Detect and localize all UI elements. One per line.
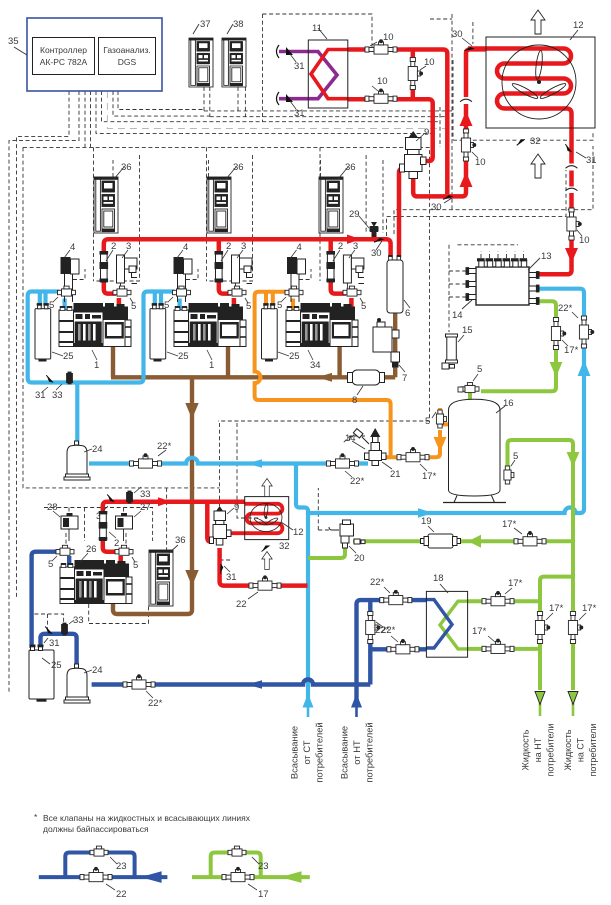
valve 17* after drier — [514, 532, 546, 546]
wire comb below controller 35 — [17, 91, 70, 597]
liquid to receiver arrow down — [550, 362, 563, 377]
svg-text:22*: 22* — [558, 303, 573, 314]
pressure transmitter 29 — [370, 222, 379, 237]
svg-text:32: 32 — [530, 136, 541, 147]
discharge header flow arrow — [347, 235, 361, 244]
wire to VFD 38 — [238, 87, 245, 117]
valve 5 on receiver top — [461, 383, 479, 393]
svg-text:Газоанализ.: Газоанализ. — [103, 45, 150, 55]
svg-text:Всасывание: Всасывание — [339, 726, 350, 779]
svg-text:16: 16 — [503, 398, 514, 409]
svg-text:12: 12 — [293, 527, 304, 538]
liquid level sensor 15 — [442, 334, 458, 369]
svg-text:17*: 17* — [422, 471, 437, 482]
suction valve 5 unit1 — [58, 286, 76, 296]
flag 30 markers — [443, 194, 453, 202]
svg-text:9: 9 — [234, 502, 239, 513]
line into oil rectifier 24 — [75, 383, 79, 447]
svg-text:20: 20 — [354, 553, 365, 564]
svg-text:31: 31 — [294, 108, 305, 119]
svg-text:31: 31 — [586, 155, 597, 166]
gas cooler 12 enclosure — [453, 131, 593, 140]
svg-text:36: 36 — [345, 162, 356, 173]
svg-text:Жидкость: Жидкость — [521, 729, 531, 770]
svg-text:5: 5 — [513, 451, 518, 462]
svg-text:30: 30 — [452, 29, 463, 40]
suction vessel 25 parallel — [29, 645, 54, 701]
svg-text:потребители: потребители — [546, 724, 556, 777]
compressor 26 suction — [32, 552, 57, 648]
svg-text:33: 33 — [140, 489, 151, 500]
svg-text:25: 25 — [63, 351, 74, 362]
tee to bypass valve 9 — [207, 502, 213, 542]
svg-text:10: 10 — [377, 76, 388, 87]
oil from separator 6 — [393, 313, 397, 377]
gas cooler feed arrow up 2 — [460, 111, 473, 126]
svg-text:5: 5 — [133, 560, 138, 571]
svg-text:от НТ: от НТ — [351, 740, 362, 765]
level sensor 15 wiring — [448, 297, 450, 332]
svg-text:на НТ: на НТ — [533, 737, 543, 762]
valve 10 lower — [365, 89, 397, 103]
injection valve 20 with solenoid — [329, 520, 365, 548]
stubs to vessel 25 unit1 — [40, 292, 46, 304]
svg-text:31: 31 — [49, 638, 60, 649]
svg-text:23: 23 — [258, 861, 269, 872]
suction valve 5 parallel — [56, 545, 74, 555]
valve 9 high pressure 3-way — [400, 131, 427, 179]
LT suction from consumers (blue) — [32, 552, 452, 717]
svg-text:24: 24 — [92, 444, 103, 455]
svg-text:Контроллер: Контроллер — [40, 45, 87, 55]
VFD 36 unit2 — [207, 177, 231, 233]
svg-text:4: 4 — [70, 242, 75, 253]
valve 17* on manifold liquid line — [551, 318, 565, 350]
wires to unit drives and valves — [93, 147, 95, 281]
heat reclaim HX 11 — [308, 40, 348, 108]
svg-text:32: 32 — [279, 541, 290, 552]
svg-text:36: 36 — [233, 162, 244, 173]
svg-text:30: 30 — [431, 202, 442, 213]
oil line: brown header — [111, 313, 395, 614]
svg-text:33: 33 — [73, 615, 84, 626]
svg-text:1: 1 — [94, 360, 99, 371]
valve 22* LT suction — [123, 675, 155, 689]
relief valve 3 unit1 — [117, 241, 138, 294]
suction accumulator 25 unit3 — [262, 304, 278, 361]
compressor 1 unit2 — [174, 303, 246, 347]
svg-text:15: 15 — [462, 325, 473, 336]
HX 11 bypass valve 10 leg — [411, 51, 416, 97]
oil rectifier 24 — [64, 441, 90, 480]
svg-text:5: 5 — [425, 416, 430, 427]
svg-text:5: 5 — [246, 301, 251, 312]
discharge header — [104, 239, 391, 293]
svg-text:28: 28 — [47, 502, 58, 513]
manifold 13 control lines — [458, 244, 519, 246]
HX 11 red pass — [311, 50, 348, 99]
svg-text:17*: 17* — [549, 603, 564, 614]
manifold to receiver — [481, 301, 556, 391]
oil filter 8 — [348, 370, 385, 385]
separator 6 to valve 9 — [399, 169, 406, 258]
legend bypass example (suction) — [39, 853, 168, 878]
svg-text:10: 10 — [424, 57, 435, 68]
light grey spare bus wire — [107, 91, 446, 129]
svg-text:38: 38 — [233, 19, 244, 30]
gas cooler / condenser 12 — [486, 20, 595, 128]
control wiring (dashed) — [9, 14, 593, 694]
filter drier 19 — [421, 534, 461, 548]
svg-text:22*: 22* — [375, 625, 390, 636]
VFD 36 parallel — [149, 550, 173, 606]
parallel compressor 26 — [60, 560, 132, 604]
svg-text:22*: 22* — [350, 476, 365, 487]
svg-text:36: 36 — [175, 535, 186, 546]
gas cooler outlet arrow down — [565, 248, 578, 263]
svg-text:DGS: DGS — [118, 57, 137, 67]
CT suction riser with jog — [296, 464, 308, 708]
suction flow arrow left — [247, 459, 262, 468]
svg-text:27: 27 — [140, 502, 151, 513]
VFD 37 — [189, 38, 213, 87]
MT suction piping (cyan) — [28, 289, 584, 717]
suction drops into compressors — [65, 299, 180, 312]
valve 9 bottom to gas cooler riser — [413, 104, 466, 196]
svg-text:потребителей: потребителей — [314, 722, 325, 782]
svg-text:31: 31 — [294, 61, 305, 72]
liquid feed arrow down — [434, 437, 447, 452]
svg-text:26: 26 — [86, 544, 97, 555]
svg-text:23: 23 — [116, 861, 127, 872]
pressure switch 28 — [61, 513, 78, 541]
check valve 2 unit1 — [100, 241, 117, 282]
manifold 13 — [466, 259, 539, 305]
flag 31 below valve 9 — [216, 564, 226, 574]
VFD 38 — [222, 38, 246, 87]
svg-text:10: 10 — [383, 32, 394, 43]
valve 5 receiver top left (orange) — [436, 410, 446, 428]
svg-text:АК-РС 782А: АК-РС 782А — [40, 57, 88, 67]
valve 10 after gas cooler — [567, 208, 581, 240]
check 33 + flag 31 on suction header — [66, 372, 73, 385]
svg-text:5: 5 — [277, 300, 282, 311]
oil level control 4 unit1 — [61, 242, 80, 302]
svg-text:17*: 17* — [508, 578, 523, 589]
svg-text:17*: 17* — [564, 345, 579, 356]
suction accumulator 25 unit1 — [35, 304, 51, 361]
suction header with risers unit1/unit2 — [28, 292, 175, 383]
valve 9 parallel — [210, 506, 232, 545]
controller cabinet 35 — [8, 18, 162, 91]
LT suction arrow left — [247, 680, 262, 689]
valve 17* liquid feed — [397, 447, 429, 461]
svg-text:2: 2 — [111, 241, 116, 252]
valve 9 to heat-reclaim HX 11 — [348, 99, 433, 161]
VFD 36 unit1 — [94, 177, 118, 233]
valves 22* at HX 18 — [380, 590, 412, 604]
svg-text:должны байпассироваться: должны байпассироваться — [43, 824, 149, 834]
liquid line arrow left — [468, 535, 481, 548]
parallel discharge flow arrow — [158, 497, 171, 506]
gas cooler 12 (parallel) coil — [228, 504, 283, 533]
svg-text:Всасывание: Всасывание — [289, 726, 300, 779]
svg-text:30: 30 — [371, 248, 382, 259]
svg-text:31: 31 — [35, 390, 46, 401]
svg-text:5: 5 — [49, 300, 54, 311]
valve 10 on gas cooler feed — [461, 129, 475, 161]
svg-text:25: 25 — [289, 351, 300, 362]
svg-text:22*: 22* — [157, 441, 172, 452]
svg-text:13: 13 — [541, 251, 552, 262]
svg-text:17*: 17* — [472, 626, 487, 637]
valve 5 receiver liquid out — [504, 466, 514, 484]
svg-text:на СТ: на СТ — [576, 737, 586, 762]
svg-text:потребителей: потребителей — [364, 722, 375, 782]
second circuit control — [219, 423, 221, 507]
liquid piping (green) — [308, 301, 573, 690]
svg-text:14: 14 — [452, 310, 463, 321]
svg-text:3: 3 — [126, 241, 131, 252]
liquid receiver 16 — [443, 399, 506, 502]
svg-text:5: 5 — [48, 559, 53, 570]
svg-text:17*: 17* — [502, 519, 517, 530]
svg-text:22: 22 — [116, 889, 127, 900]
svg-text:5: 5 — [164, 300, 169, 311]
oil drop compressor 2 — [226, 336, 230, 377]
svg-text:10: 10 — [475, 157, 486, 168]
svg-text:14: 14 — [345, 433, 356, 444]
svg-text:10: 10 — [579, 235, 590, 246]
svg-text:9: 9 — [424, 127, 429, 138]
svg-text:31: 31 — [226, 572, 237, 583]
LT compressor 34 — [286, 303, 358, 347]
svg-text:37: 37 — [200, 19, 211, 30]
oil level regulator 7 — [373, 318, 400, 367]
valve 10 bypass vertical — [408, 58, 422, 90]
discharge valve 5 unit2 — [228, 286, 246, 296]
oil drop compressor 1 — [111, 336, 115, 377]
svg-text:12: 12 — [573, 20, 584, 31]
svg-text:35: 35 — [8, 36, 19, 47]
suction flow arrow right — [418, 508, 433, 518]
subcooler HX 18 — [426, 591, 467, 657]
svg-text:11: 11 — [312, 23, 322, 34]
receiver liquid out — [508, 440, 574, 690]
oil separator 6 — [387, 260, 403, 313]
svg-text:25: 25 — [51, 660, 62, 671]
discharge valve 5 unit1 — [113, 286, 131, 296]
gas cooler feed arrow up 1 — [460, 172, 473, 187]
svg-text:5: 5 — [477, 364, 482, 375]
gas cooler 12 coil — [468, 49, 572, 164]
check valve 2 parallel — [99, 511, 108, 541]
svg-text:от СТ: от СТ — [301, 740, 312, 764]
svg-text:2: 2 — [114, 538, 119, 549]
svg-text:Жидкость: Жидкость — [563, 729, 573, 770]
svg-text:8: 8 — [352, 395, 357, 406]
liquid feed line from receiver — [382, 430, 440, 457]
svg-text:5: 5 — [131, 301, 136, 312]
oil flow arrow left — [317, 373, 332, 382]
solenoid 14 + expansion valve 21 — [350, 429, 387, 466]
line 24 to valve 21 — [89, 458, 368, 464]
svg-text:36: 36 — [121, 162, 132, 173]
HX 11 out to gas-cooler feed — [348, 50, 448, 195]
oil rectifier 24 parallel — [64, 664, 90, 703]
svg-text:25: 25 — [178, 351, 189, 362]
oil flow arrow down lower — [185, 570, 198, 586]
valve 22 to main suction — [249, 576, 281, 590]
pipe breaks — [460, 99, 472, 102]
heat-reclaim enclosure — [263, 14, 373, 50]
wire to VFD 37 — [204, 87, 210, 117]
check valves 31 on water lines — [277, 45, 280, 58]
svg-text:22*: 22* — [148, 698, 163, 709]
valves 17* at HX 18 — [482, 591, 514, 605]
svg-text:24: 24 — [92, 665, 103, 676]
svg-text:5: 5 — [361, 301, 366, 312]
NT suction riser arrow — [351, 694, 362, 708]
valve 10 top — [365, 40, 397, 54]
LT suction (orange) — [255, 292, 449, 457]
CT suction riser arrow — [303, 694, 314, 708]
parallel compressor 26 discharge — [103, 502, 245, 552]
svg-text:33: 33 — [52, 390, 63, 401]
oil branch to compressor 26 — [113, 377, 192, 614]
suction valve 5 unit2 — [173, 286, 191, 296]
suction valve 5 unit3 — [285, 286, 303, 296]
discharge valve 5 parallel — [115, 545, 133, 555]
svg-text:29: 29 — [349, 209, 360, 220]
VFD 36 unit3 — [319, 177, 343, 233]
valve 22* suction line right — [327, 454, 359, 468]
oil flow arrow down upper — [185, 403, 198, 419]
svg-text:Все клапаны на жидкостных и вс: Все клапаны на жидкостных и всасывающих … — [43, 813, 251, 823]
valve 9 down through check to valve 22 — [220, 548, 308, 586]
svg-text:потребители: потребители — [588, 724, 598, 777]
flag 31 / check 33 parallel suction — [44, 627, 53, 634]
svg-text:19: 19 — [421, 516, 432, 527]
svg-text:17*: 17* — [582, 603, 597, 614]
suction accumulator 25 unit2 — [150, 304, 166, 361]
svg-text:17: 17 — [258, 889, 269, 900]
svg-text:34: 34 — [310, 360, 321, 371]
gas cooler 12 parallel — [245, 497, 289, 540]
flag 31 and check 33 on discharge — [106, 495, 115, 502]
svg-text:1: 1 — [209, 360, 214, 371]
svg-text:7: 7 — [402, 373, 407, 384]
svg-text:18: 18 — [433, 573, 444, 584]
machine-room enclosure — [23, 147, 430, 421]
svg-text:21: 21 — [390, 469, 401, 480]
valve 22* suction line left — [130, 454, 162, 468]
liquid out arrow down — [567, 452, 580, 467]
svg-text:22*: 22* — [370, 577, 385, 588]
oil drop compressor 3 — [337, 336, 341, 377]
discharge valve 5 unit3 — [343, 286, 361, 296]
bus lines to pressure transmitter 29 and valves right — [387, 170, 567, 236]
suction to manifold 13 — [308, 289, 584, 513]
svg-text:22: 22 — [236, 599, 247, 610]
legend bypass example (liquid) — [192, 853, 310, 878]
discharge piping (red) — [103, 49, 572, 586]
svg-text:6: 6 — [405, 308, 410, 319]
purple heat-reclaim water — [279, 52, 337, 99]
compressor 1 unit1 — [59, 303, 131, 347]
stubs to vessel 25 unit2 — [155, 292, 161, 304]
vapour return arrow up — [578, 360, 591, 376]
valve 22* on manifold vapour line — [579, 316, 593, 348]
